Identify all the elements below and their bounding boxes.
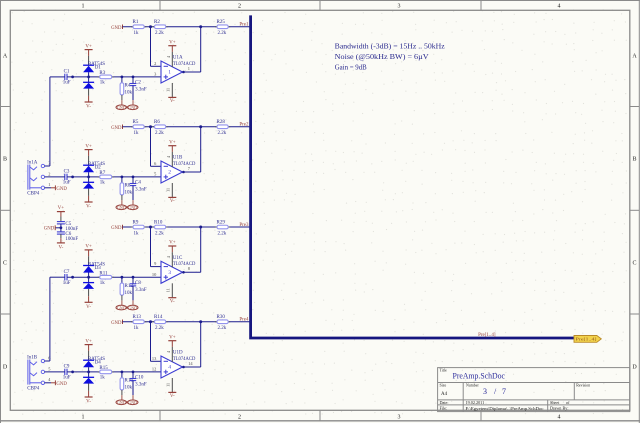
svg-text:12: 12 [152, 367, 156, 372]
svg-text:V-: V- [86, 400, 91, 405]
svg-text:R25: R25 [217, 20, 226, 25]
svg-text:V-: V- [58, 245, 63, 250]
svg-text:4: 4 [168, 365, 171, 371]
svg-text:D: D [3, 365, 8, 371]
svg-text:1k: 1k [100, 181, 106, 186]
svg-text:2.2k: 2.2k [155, 231, 164, 236]
svg-text:R15: R15 [99, 366, 108, 371]
svg-text:10k: 10k [125, 386, 133, 391]
svg-text:2.2k: 2.2k [218, 326, 227, 331]
svg-text:11: 11 [166, 88, 171, 92]
svg-text:of: of [566, 400, 570, 405]
svg-text:V+: V+ [85, 44, 92, 49]
svg-text:1k: 1k [134, 31, 140, 36]
svg-text:TL074ACD: TL074ACD [173, 161, 196, 167]
svg-text:11: 11 [166, 383, 171, 387]
svg-text:3.3nF: 3.3nF [135, 188, 147, 193]
svg-text:Title: Title [440, 369, 447, 373]
svg-text:10k: 10k [125, 91, 133, 96]
svg-text:V-: V- [86, 205, 91, 210]
svg-text:R3: R3 [99, 71, 105, 76]
svg-text:R6: R6 [154, 120, 160, 125]
svg-text:A: A [632, 54, 637, 60]
svg-text:C1: C1 [64, 70, 70, 75]
svg-text:Date:: Date: [440, 400, 449, 405]
svg-text:File:: File: [440, 406, 448, 411]
svg-text:Bandwidth (-3dB) = 15Hz .. 50k: Bandwidth (-3dB) = 15Hz .. 50kHz [335, 42, 446, 51]
svg-text:V-: V- [170, 300, 175, 305]
svg-text:C4: C4 [135, 181, 141, 186]
svg-text:100nF: 100nF [65, 227, 78, 232]
svg-text:10k: 10k [125, 191, 133, 196]
svg-text:Pre2: Pre2 [239, 122, 249, 127]
svg-text:U1C: U1C [173, 256, 183, 261]
svg-text:GND: GND [111, 226, 122, 231]
svg-text:Revision: Revision [576, 383, 590, 387]
svg-text:3: 3 [168, 270, 171, 276]
svg-text:R5: R5 [133, 120, 139, 125]
svg-text:GND: GND [128, 105, 137, 110]
svg-text:R4: R4 [125, 84, 131, 89]
svg-text:1k: 1k [100, 281, 106, 286]
svg-text:V-: V- [86, 105, 91, 110]
svg-text:3: 3 [398, 414, 401, 420]
svg-text:PreAmp.SchDoc: PreAmp.SchDoc [453, 371, 506, 381]
svg-text:GND: GND [111, 126, 122, 131]
svg-text:V+: V+ [58, 206, 65, 211]
svg-text:1uF: 1uF [63, 181, 71, 186]
svg-text:R14: R14 [154, 315, 163, 320]
svg-text:V+: V+ [85, 144, 92, 149]
svg-text:1: 1 [168, 70, 171, 76]
svg-text:1: 1 [188, 66, 190, 71]
svg-text:U1B: U1B [173, 156, 183, 161]
svg-text:B: B [3, 157, 7, 163]
svg-text:3.3nF: 3.3nF [135, 88, 147, 93]
svg-text:C3: C3 [64, 170, 70, 175]
svg-text:D1: D1 [95, 66, 102, 71]
svg-text:1: 1 [82, 414, 85, 420]
svg-text:D4: D4 [95, 361, 102, 366]
svg-text:3: 3 [398, 4, 401, 10]
svg-text:R11: R11 [99, 271, 108, 276]
svg-text:C10: C10 [135, 376, 144, 381]
svg-text:Pre[1..4]: Pre[1..4] [478, 333, 496, 338]
svg-text:2: 2 [154, 61, 156, 66]
svg-text:Pre4: Pre4 [239, 317, 249, 322]
svg-text:R28: R28 [217, 120, 226, 125]
svg-text:Pre[1..4]: Pre[1..4] [576, 337, 598, 342]
svg-text:4: 4 [558, 414, 561, 420]
svg-text:3.3nF: 3.3nF [135, 383, 147, 388]
svg-text:19.02.2011: 19.02.2011 [466, 400, 485, 405]
svg-text:2: 2 [48, 171, 50, 176]
svg-text:2.2k: 2.2k [155, 131, 164, 136]
svg-text:GND: GND [56, 382, 67, 387]
svg-text:V-: V- [86, 305, 91, 310]
svg-text:C8: C8 [135, 281, 141, 286]
svg-text:Sheet: Sheet [550, 400, 560, 405]
svg-text:A4: A4 [441, 392, 448, 397]
svg-text:GND: GND [117, 205, 126, 210]
svg-text:11: 11 [166, 188, 171, 192]
svg-text:TL074ACD: TL074ACD [173, 261, 196, 267]
svg-text:1: 1 [82, 4, 85, 10]
svg-text:GND: GND [56, 187, 67, 192]
svg-text:R8: R8 [125, 184, 131, 189]
svg-text:B: B [632, 157, 636, 163]
svg-text:V-: V- [170, 99, 175, 104]
svg-text:2.2k: 2.2k [218, 131, 227, 136]
svg-text:7: 7 [502, 387, 506, 396]
svg-text:C9: C9 [64, 365, 70, 370]
svg-text:1uF: 1uF [63, 81, 71, 86]
svg-text:Drawn By:: Drawn By: [550, 406, 569, 411]
svg-text:GND: GND [128, 400, 137, 405]
svg-text:2.2k: 2.2k [155, 326, 164, 331]
svg-text:2: 2 [168, 170, 171, 176]
svg-text:D3: D3 [95, 266, 102, 271]
svg-text:C: C [3, 261, 7, 267]
svg-text:CBP4: CBP4 [27, 191, 39, 196]
svg-text:R7: R7 [99, 171, 105, 176]
svg-text:C7: C7 [64, 270, 70, 275]
svg-text:R10: R10 [154, 220, 163, 225]
svg-text:V-: V- [170, 199, 175, 204]
svg-text:R30: R30 [217, 315, 226, 320]
svg-text:F:\Egyetem\Diploma\..\PreAmp.S: F:\Egyetem\Diploma\..\PreAmp.SchDoc [466, 406, 544, 411]
svg-text:GND: GND [117, 400, 126, 405]
svg-text:1k: 1k [100, 376, 106, 381]
svg-text:1k: 1k [134, 231, 140, 236]
svg-text:V+: V+ [169, 335, 176, 340]
svg-text:V+: V+ [169, 241, 176, 246]
svg-text:3.3nF: 3.3nF [135, 288, 147, 293]
svg-text:D: D [632, 365, 637, 371]
svg-text:Pre3: Pre3 [239, 223, 249, 228]
svg-text:U1D: U1D [173, 351, 183, 356]
svg-text:2: 2 [238, 4, 241, 10]
svg-text:2.2k: 2.2k [218, 31, 227, 36]
svg-text:R1: R1 [133, 20, 139, 25]
svg-text:2.2k: 2.2k [218, 231, 227, 236]
svg-text:Number: Number [466, 383, 479, 387]
svg-text:R9: R9 [133, 220, 139, 225]
svg-text:In1B: In1B [27, 356, 38, 361]
svg-text:V-: V- [170, 394, 175, 399]
svg-text:11: 11 [166, 288, 171, 292]
svg-text:V+: V+ [85, 245, 92, 250]
svg-text:3: 3 [483, 387, 487, 396]
svg-text:V+: V+ [169, 40, 176, 45]
svg-text:R16: R16 [125, 379, 134, 384]
svg-text:GND: GND [44, 227, 55, 232]
svg-text:R2: R2 [154, 20, 160, 25]
svg-text:A: A [3, 54, 8, 60]
svg-text:Size: Size [440, 383, 447, 387]
svg-text:GND: GND [111, 26, 122, 31]
svg-text:GND: GND [111, 321, 122, 326]
svg-text:10k: 10k [125, 291, 133, 296]
svg-text:Noise (@50kHz BW) = 6µV: Noise (@50kHz BW) = 6µV [335, 52, 430, 61]
svg-text:1uF: 1uF [63, 376, 71, 381]
svg-text:4: 4 [558, 4, 561, 10]
svg-text:1k: 1k [100, 81, 106, 86]
svg-text:1k: 1k [134, 326, 140, 331]
svg-text:2.2k: 2.2k [155, 31, 164, 36]
svg-text:GND: GND [128, 205, 137, 210]
svg-text:2: 2 [238, 414, 241, 420]
svg-text:GND: GND [117, 105, 126, 110]
svg-text:V+: V+ [85, 339, 92, 344]
svg-text:R13: R13 [133, 315, 142, 320]
svg-text:GND: GND [117, 305, 126, 310]
svg-text:V+: V+ [169, 140, 176, 145]
svg-text:TL074ACD: TL074ACD [173, 61, 196, 67]
svg-text:U1A: U1A [173, 56, 183, 61]
svg-text:CBP4: CBP4 [27, 386, 39, 391]
svg-text:R29: R29 [217, 220, 226, 225]
svg-text:In1A: In1A [27, 161, 38, 166]
svg-text:Gain = 9dB: Gain = 9dB [335, 62, 367, 71]
svg-text:1uF: 1uF [63, 281, 71, 286]
svg-text:1: 1 [48, 182, 50, 187]
svg-text:1k: 1k [134, 131, 140, 136]
svg-text:Pre1: Pre1 [239, 22, 249, 27]
svg-text:R12: R12 [125, 284, 134, 289]
svg-text:C2: C2 [135, 81, 141, 86]
svg-text:C: C [632, 261, 636, 267]
svg-text:D2: D2 [95, 166, 102, 171]
svg-text:100nF: 100nF [65, 237, 78, 242]
svg-text:GND: GND [128, 305, 137, 310]
